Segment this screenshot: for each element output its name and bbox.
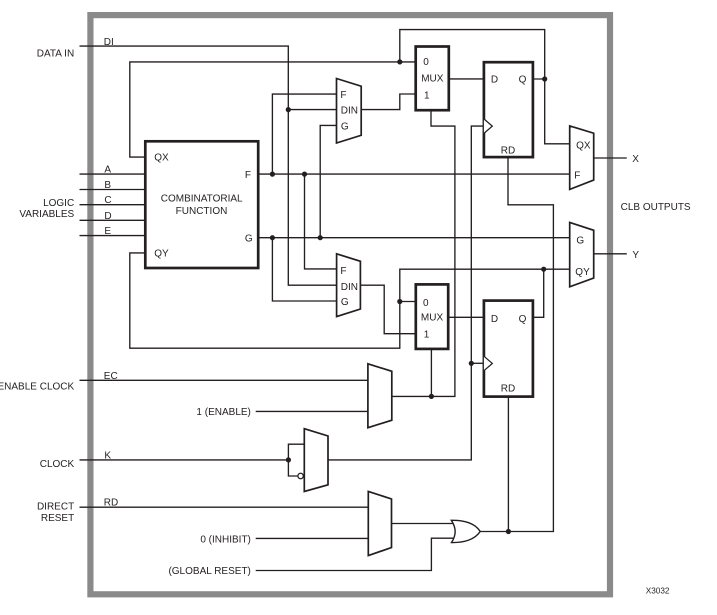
node F junction left [270, 172, 275, 177]
svg-text:C: C [104, 195, 111, 206]
wire E input [80, 235, 146, 237]
svg-text:QY: QY [154, 249, 169, 260]
svg-text:1 (ENABLE): 1 (ENABLE) [196, 407, 250, 418]
mux enable-clock select [368, 364, 392, 428]
wire F branch up to top DIN-mux F input [272, 94, 336, 174]
svg-text:D: D [104, 211, 111, 222]
svg-text:DATA IN: DATA IN [37, 48, 74, 59]
wire reset-mux output to OR gate input [392, 523, 457, 525]
mux clock polarity [304, 429, 328, 492]
wire Y output [594, 253, 627, 255]
svg-text:DI: DI [104, 37, 114, 48]
svg-text:G: G [576, 236, 584, 247]
node QY junction at bottom Q [541, 267, 546, 272]
svg-text:MUX: MUX [421, 74, 444, 85]
mux 0/1 top [416, 47, 449, 111]
svg-text:RD: RD [501, 146, 515, 157]
wire G branch down to bottom DIN-mux G input [272, 238, 336, 301]
svg-text:0 (INHIBIT): 0 (INHIBIT) [200, 535, 251, 546]
svg-text:DIN: DIN [341, 106, 358, 117]
svg-text:1: 1 [424, 90, 430, 101]
CLB boundary frame [90, 15, 610, 594]
svg-text:QX: QX [154, 152, 169, 163]
wire X output [594, 157, 627, 159]
svg-text:G: G [245, 234, 253, 245]
wire enable-mux output to MUX select pins [392, 110, 455, 396]
wire F output line [258, 173, 570, 175]
svg-text:1: 1 [424, 330, 430, 341]
wire top DIN-mux output to MUX 1 input [361, 94, 416, 110]
svg-text:VARIABLES: VARIABLES [19, 209, 74, 220]
wire D input [80, 219, 146, 221]
wire DI data-in line [80, 46, 337, 285]
svg-text:F: F [340, 266, 346, 277]
svg-text:F: F [245, 170, 251, 181]
svg-text:D: D [491, 75, 498, 86]
wire 0 (INHIBIT) input line [256, 537, 369, 539]
svg-text:COMBINATORIAL: COMBINATORIAL [161, 193, 243, 204]
svg-text:E: E [104, 226, 111, 237]
mux F/DIN/G bottom [337, 254, 361, 317]
svg-text:CLB OUTPUTS: CLB OUTPUTS [621, 202, 691, 213]
wire clock branch to bottom flip-flop clock [471, 362, 484, 364]
flip-flop QX [484, 62, 533, 157]
svg-text:Y: Y [632, 250, 639, 261]
node K junction [286, 457, 291, 462]
svg-text:Q: Q [519, 314, 527, 325]
svg-text:QY: QY [575, 267, 590, 278]
node QY junction at bottom MUX 0 [397, 299, 402, 304]
wire DI branch to top DIN input [288, 109, 336, 111]
svg-text:(GLOBAL RESET): (GLOBAL RESET) [168, 566, 250, 577]
svg-text:X3032: X3032 [646, 586, 670, 595]
wire 1 (ENABLE) input line [256, 410, 368, 412]
wire Q output of bottom flip-flop [533, 269, 544, 317]
mux QX/F output [570, 126, 594, 189]
wire Q output of top flip-flop [533, 79, 570, 144]
wire QX feedback loop to comb function and MUX 0 input [130, 62, 416, 157]
wire G output line [258, 237, 570, 239]
wire C input [80, 204, 146, 206]
node QX junction at Q output [542, 76, 547, 81]
svg-text:MUX: MUX [421, 312, 444, 323]
svg-text:G: G [341, 297, 349, 308]
svg-text:FUNCTION: FUNCTION [176, 206, 228, 217]
node G junction left [270, 235, 275, 240]
wire B input [80, 189, 146, 191]
wire QY feedback loop [130, 253, 570, 348]
svg-text:X: X [632, 154, 639, 165]
combinatorial function block [145, 141, 258, 268]
svg-text:RESET: RESET [41, 513, 74, 524]
svg-text:LOGIC: LOGIC [43, 198, 74, 209]
mux 0/1 bottom [416, 284, 448, 349]
inversion bubble on clock-mux [298, 473, 303, 478]
wire clock-mux output to flip-flop clocks [328, 126, 484, 460]
node QX junction at MUX 0 line [397, 59, 402, 64]
node F junction right [302, 172, 307, 177]
svg-text:F: F [574, 170, 580, 181]
svg-text:G: G [341, 121, 349, 132]
wire top MUX output to D input [449, 78, 484, 80]
svg-text:K: K [104, 450, 111, 461]
wire F branch down to bottom DIN-mux F input [305, 174, 337, 269]
svg-text:CLOCK: CLOCK [40, 459, 75, 470]
svg-text:RD: RD [104, 498, 118, 509]
svg-text:0: 0 [423, 298, 429, 309]
svg-text:A: A [104, 165, 111, 176]
svg-text:RD: RD [501, 383, 515, 394]
node G junction right [318, 235, 323, 240]
wire K branch to clock-mux true input [288, 444, 304, 460]
wire RD direct reset input line [80, 506, 369, 508]
mux F/DIN/G top [337, 79, 362, 144]
wire K branch to clock-mux inverted input [288, 460, 297, 476]
wire reset branch to bottom flip-flop RD [507, 397, 509, 532]
wire enable branch to bottom MUX select [430, 349, 432, 397]
svg-text:EC: EC [104, 371, 118, 382]
wire EC enable clock input line [80, 379, 368, 381]
node DI junction at top DIN [286, 107, 291, 112]
wire A input [80, 173, 146, 175]
clock wedge top flip-flop [484, 119, 492, 133]
flip-flop QY [484, 301, 533, 397]
svg-text:QX: QX [576, 141, 591, 152]
wire K clock input line [80, 459, 289, 461]
node clock junction [469, 361, 474, 366]
node enable junction [429, 394, 434, 399]
node reset junction [506, 529, 511, 534]
svg-text:DIRECT: DIRECT [37, 502, 74, 513]
wire bottom DIN-mux output to MUX 1 input [360, 285, 415, 334]
mux direct-reset select [368, 491, 391, 555]
svg-text:0: 0 [423, 57, 429, 68]
mux G/QY output [570, 222, 594, 286]
wire OR gate output to flip-flop RD pins [480, 157, 554, 531]
OR gate reset [451, 520, 480, 542]
svg-text:F: F [340, 90, 346, 101]
wire QY branch to bottom MUX 0 input [400, 301, 416, 303]
wire bottom MUX output to D input [448, 316, 484, 318]
wire G branch up to top DIN-mux G input [320, 125, 336, 237]
wire QX net riser over the top [400, 30, 545, 79]
svg-text:Q: Q [519, 75, 527, 86]
svg-text:B: B [104, 180, 111, 191]
clock wedge bottom flip-flop [484, 356, 492, 371]
svg-text:DIN: DIN [341, 282, 358, 293]
svg-text:D: D [491, 314, 498, 325]
svg-text:ENABLE CLOCK: ENABLE CLOCK [0, 381, 75, 392]
wire (GLOBAL RESET) line to OR gate input [256, 538, 457, 570]
